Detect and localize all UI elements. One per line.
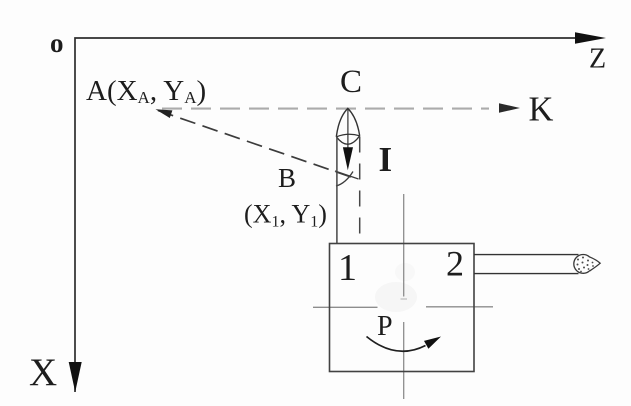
svg-text:B: B	[278, 163, 296, 193]
svg-text:P: P	[377, 311, 393, 342]
svg-text:K: K	[529, 91, 554, 129]
svg-text:C: C	[340, 64, 362, 100]
svg-text:1: 1	[338, 247, 357, 289]
svg-text:2: 2	[446, 244, 464, 284]
svg-text:I: I	[379, 140, 393, 179]
svg-text:Z: Z	[589, 44, 606, 75]
svg-text:X: X	[29, 351, 57, 394]
svg-text:o: o	[50, 28, 64, 58]
